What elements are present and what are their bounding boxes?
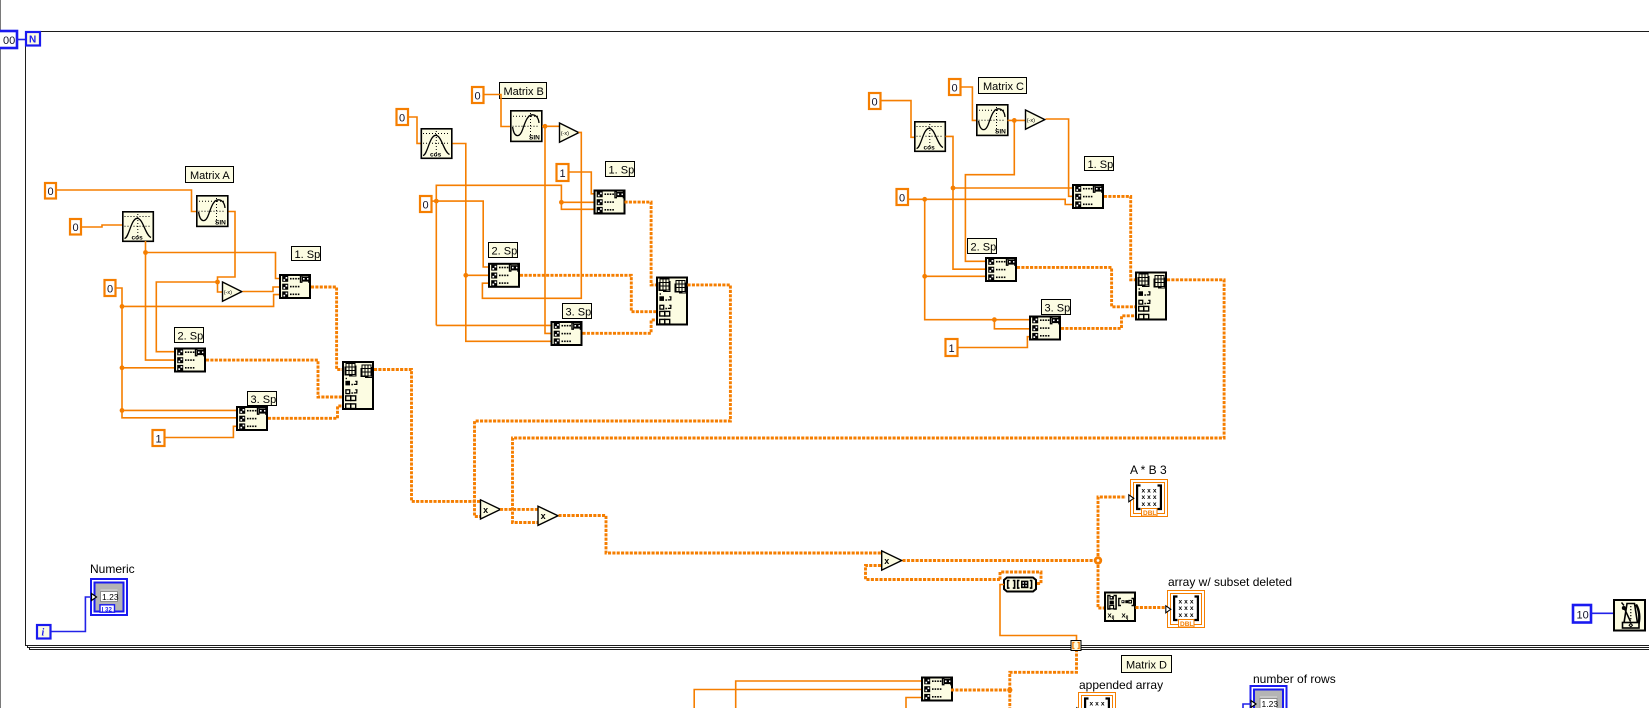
array wire multiply2 to multiply3 <box>559 516 882 554</box>
wait (ms) icon <box>1614 600 1645 631</box>
constant 0 (C sin) <box>949 79 961 95</box>
label 1. Sp (A) <box>292 247 321 262</box>
junction cos A <box>143 250 148 255</box>
svg-text:1. Sp: 1. Sp <box>1088 159 1114 171</box>
cos icon B <box>421 129 452 159</box>
wire cos C out to 1.Sp and 2.Sp <box>946 136 1073 269</box>
window left edge <box>0 0 2 708</box>
svg-text:A * B 3: A * B 3 <box>1130 463 1167 477</box>
tunnel (auto indexing) <box>1071 641 1081 651</box>
junction 0 bus A1 <box>120 304 125 309</box>
i iteration terminal <box>37 625 51 639</box>
array wire 1.Sp B to build matrix <box>625 202 657 285</box>
svg-text:Numeric: Numeric <box>90 562 135 576</box>
constant 10 <box>1573 605 1591 623</box>
text number of rows <box>1253 672 1336 686</box>
wire 0 to cos B <box>408 117 421 143</box>
svg-text:i: i <box>42 628 45 639</box>
for loop top border <box>41 31 1649 33</box>
build array 2.Sp B <box>489 264 519 287</box>
label 2. Sp (C) <box>968 239 997 254</box>
array wire D out to tunnel <box>951 651 1077 708</box>
wire 10 to wait <box>1591 612 1613 614</box>
text appended array <box>1079 678 1163 692</box>
junction sin B <box>543 124 548 129</box>
label 2. Sp (A) <box>175 328 204 343</box>
build array 2.Sp C <box>986 258 1016 281</box>
svg-text:1. Sp: 1. Sp <box>295 249 321 261</box>
array wire index loop to multiply3 lower input <box>866 566 1042 584</box>
array wire 3.Sp B to build matrix <box>583 320 657 333</box>
index array node <box>1004 578 1036 592</box>
wire sin B out to negate and 3.Sp <box>542 126 559 333</box>
svg-text:2. Sp: 2. Sp <box>492 246 518 258</box>
sin icon A <box>197 196 228 227</box>
label 2. Sp (B) <box>489 243 518 258</box>
wire feed D row2 <box>694 690 921 708</box>
wire 0 to sin B <box>484 95 511 127</box>
matrix indicator array w/ subset deleted <box>1166 591 1205 629</box>
matrix indicator appended array <box>1077 693 1116 708</box>
constant 0 (A sin) <box>45 183 56 199</box>
build array node D <box>922 678 952 701</box>
svg-text:3. Sp: 3. Sp <box>251 394 277 406</box>
svg-text:1.23: 1.23 <box>102 592 119 602</box>
junction D <box>1007 687 1012 692</box>
wire feed D row1 <box>736 681 921 708</box>
wire i to numeric <box>51 597 92 632</box>
svg-text:Matrix C: Matrix C <box>983 81 1024 93</box>
build array 1.Sp B <box>595 191 625 214</box>
numeric indicator I32 <box>91 579 127 615</box>
svg-text:2. Sp: 2. Sp <box>971 242 997 254</box>
svg-text:0: 0 <box>423 200 429 212</box>
svg-text:0: 0 <box>48 186 54 198</box>
svg-text:0: 0 <box>872 97 878 109</box>
sin icon C <box>977 105 1008 136</box>
label 3. Sp (C) <box>1042 300 1071 315</box>
build array 3.Sp B <box>552 322 582 345</box>
wire 0 to cos C <box>881 101 915 138</box>
array wire 1.Sp C to build matrix <box>1104 196 1135 279</box>
numeric indicator number of rows <box>1251 686 1287 708</box>
build array 3.Sp C <box>1030 317 1060 340</box>
junction A*B <box>1094 556 1102 564</box>
matrix indicator A*B 3 <box>1129 480 1168 518</box>
svg-text:2. Sp: 2. Sp <box>178 331 204 343</box>
svg-text:1.23: 1.23 <box>1262 699 1279 708</box>
wire cos B out to 2.Sp and 3.Sp <box>453 144 551 342</box>
delete from array node <box>1105 593 1135 622</box>
svg-text:Matrix D: Matrix D <box>1126 660 1167 672</box>
constant 0 (B spinner) <box>420 196 432 212</box>
wire sin A out to negate and 2.Sp <box>156 212 235 352</box>
text array w/ subset deleted <box>1168 575 1292 589</box>
wire into number of rows <box>1243 704 1251 708</box>
array wire multiply1 to multiply2 <box>500 508 538 511</box>
text Numeric <box>90 562 135 576</box>
wire multiply3 out junction <box>903 497 1127 608</box>
svg-text:3. Sp: 3. Sp <box>566 307 592 319</box>
svg-text:0: 0 <box>73 222 79 234</box>
negate triangle B <box>560 123 579 142</box>
wire 1 to 3.Sp A <box>165 426 237 437</box>
svg-text:N: N <box>29 35 36 46</box>
junction 0 bus B1 <box>434 199 439 204</box>
svg-text:1: 1 <box>949 343 955 355</box>
for loop left border <box>25 46 27 645</box>
junction 0 bus B2 <box>559 200 564 205</box>
wire 1 to 3.Sp C <box>958 337 1030 348</box>
label 3. Sp (B) <box>563 304 592 319</box>
svg-text:appended array: appended array <box>1079 678 1163 692</box>
text A * B 3 <box>1130 463 1167 477</box>
wire 0 to sin C <box>961 87 977 120</box>
sin icon B <box>511 111 542 142</box>
wire negate C out to 1.Sp row2 <box>1046 119 1073 196</box>
label Matrix D <box>1122 656 1172 673</box>
constant 0 (C spinner) <box>897 189 909 205</box>
constant 0 (C cos) <box>869 93 881 109</box>
svg-text:3. Sp: 3. Sp <box>1045 303 1071 315</box>
multiply 2 <box>538 506 558 525</box>
array wire 3.Sp A to build matrix <box>268 406 342 418</box>
array wire 2.Sp B to build matrix <box>520 275 656 311</box>
build array 3.Sp A <box>237 407 267 430</box>
junction cos C <box>951 186 956 191</box>
constant 1 (B) <box>557 164 569 181</box>
junction 0 bus A2 <box>120 365 125 370</box>
svg-text:1. Sp: 1. Sp <box>609 165 635 177</box>
constant 0 (B cos) <box>397 109 409 125</box>
cos icon C <box>915 122 946 152</box>
wire negate B out to 2.Sp row3 <box>482 132 581 298</box>
svg-text:I 32: I 32 <box>102 606 113 613</box>
build array 1.Sp A <box>280 275 310 298</box>
matrix wire B to multiply 1 <box>475 285 731 517</box>
label Matrix A <box>186 167 234 183</box>
svg-text:Matrix B: Matrix B <box>504 86 544 98</box>
svg-text:number of rows: number of rows <box>1253 672 1336 686</box>
label Matrix C <box>979 78 1027 94</box>
build array 1.Sp C <box>1073 185 1103 208</box>
constant 0 (A cos) <box>70 219 81 235</box>
label 1. Sp (B) <box>606 162 635 177</box>
junction 0 bus C2 <box>922 274 927 279</box>
wire sin C out to negate and 2.Sp <box>965 120 1025 261</box>
constant 0 (A spinner) <box>105 280 116 296</box>
wire cos A out to 1.Sp and 2.Sp <box>146 241 280 360</box>
array wire 2.Sp A to build matrix <box>206 360 342 397</box>
negate triangle A <box>223 282 242 301</box>
wire 0 bus C <box>908 199 1072 328</box>
wire 0 to cos A <box>81 225 122 227</box>
array wire delete to indicator <box>1136 606 1168 609</box>
junction cos B <box>463 273 468 278</box>
array wire 2.Sp C to build matrix <box>1017 267 1135 306</box>
build matrix node A <box>343 362 373 409</box>
negate triangle C <box>1026 110 1045 129</box>
svg-text:0: 0 <box>399 113 405 125</box>
wire 0 to sin A <box>56 190 196 212</box>
array wire 3.Sp C to build matrix <box>1061 316 1135 329</box>
cos icon A <box>123 212 154 242</box>
junction sin C <box>1012 118 1017 123</box>
array wire 1.Sp A to build matrix <box>311 287 342 370</box>
wire 100 to N <box>17 39 25 41</box>
svg-text:array w/ subset deleted: array w/ subset deleted <box>1168 575 1292 589</box>
svg-text:1: 1 <box>560 168 566 180</box>
build array 2.Sp A <box>175 349 205 372</box>
build matrix node C <box>1136 273 1166 320</box>
matrix wire A to multiply 1 <box>374 370 480 502</box>
svg-text:0: 0 <box>899 193 905 205</box>
scalar wire index node to tunnel <box>1000 585 1077 642</box>
wire 0 down bus A <box>116 288 280 418</box>
build matrix node B <box>657 278 687 325</box>
svg-text:0: 0 <box>952 83 958 95</box>
label 3. Sp (A) <box>248 392 277 407</box>
wire 0 bus B <box>432 185 594 325</box>
svg-text:0: 0 <box>107 284 113 296</box>
junction 0 bus A3 <box>120 408 125 413</box>
loop count constant 100 <box>0 31 17 48</box>
label 1. Sp (C) <box>1085 157 1114 172</box>
wire negate A out to 1.Sp <box>243 287 280 292</box>
junction sin A <box>215 280 220 285</box>
junction 0 bus C3 <box>992 317 997 322</box>
wire feed D row3 <box>906 698 921 708</box>
for loop bottom border (stacked) <box>25 646 1649 650</box>
svg-text:0: 0 <box>475 91 481 103</box>
svg-text:10: 10 <box>1577 610 1589 622</box>
junction 0 bus C1 <box>922 197 927 202</box>
label Matrix B <box>500 83 547 99</box>
matrix wire C to multiply 2 <box>513 280 1225 523</box>
multiply 3 <box>882 551 902 570</box>
N count terminal <box>26 32 40 46</box>
svg-text:1: 1 <box>156 434 162 446</box>
wire 1 to 1.Sp B <box>569 172 594 194</box>
multiply 1 <box>481 500 501 519</box>
svg-text:Matrix A: Matrix A <box>190 170 230 182</box>
constant 1 (C) <box>946 339 958 356</box>
constant 1 (A) <box>153 430 165 446</box>
svg-text:00: 00 <box>3 35 15 47</box>
constant 0 (B sin) <box>472 87 484 103</box>
